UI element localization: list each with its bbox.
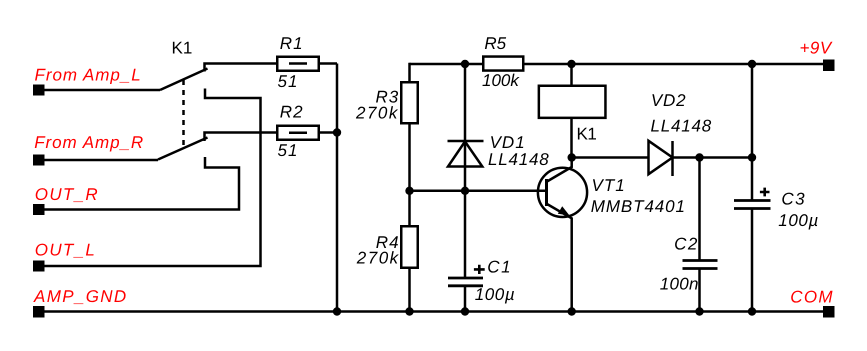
- wire: [44, 159, 158, 162]
- junction top rail / C3: [748, 60, 756, 68]
- svg-text:MMBT4401: MMBT4401: [591, 197, 686, 216]
- wire C3 to ground rail: [751, 209, 754, 312]
- wire vertical bus to ground rail: [336, 64, 339, 312]
- wire R1 to vertical bus: [319, 62, 337, 65]
- switch blade K1.1: [160, 69, 208, 91]
- wire rail to relay coil: [570, 64, 573, 85]
- svg-text:C1: C1: [487, 258, 512, 277]
- svg-text:100n: 100n: [660, 274, 699, 293]
- wire C2 to ground rail: [698, 269, 701, 312]
- wire rail to R3: [408, 63, 411, 83]
- svg-text:LL4148: LL4148: [488, 150, 550, 169]
- junction rail / R4: [405, 307, 413, 315]
- terminal From Amp_L: [33, 85, 45, 96]
- junction top rail / VD1: [461, 60, 469, 68]
- transistor VT1 emitter arrow: [558, 206, 570, 215]
- wire C2 branch down: [698, 158, 701, 261]
- transistor VT1 base bar: [545, 179, 548, 206]
- diode VD1 triangle: [448, 142, 482, 167]
- transistor VT1 emitter: [547, 204, 572, 312]
- transistor VT1 circle: [538, 168, 587, 217]
- junction VD2 / C2: [695, 153, 703, 161]
- transistor VT1 collector: [547, 158, 572, 182]
- wire NO contact 1 to R1: [205, 64, 278, 72]
- svg-text:OUT_L: OUT_L: [35, 241, 96, 260]
- junction rail / emitter: [568, 307, 576, 315]
- wire NO contact 2 to R2: [205, 133, 278, 142]
- wire NC contact 2 to OUT_R: [44, 157, 239, 210]
- svg-text:From Amp_R: From Amp_R: [34, 133, 144, 152]
- wire R4 to ground rail: [408, 268, 411, 312]
- svg-text:R1: R1: [280, 34, 304, 53]
- switch blade K1.2: [158, 138, 208, 160]
- capacitor C3 plus sign: [760, 188, 770, 197]
- wire +9V rail: [410, 63, 824, 66]
- capacitor C1 plates: [448, 277, 483, 280]
- svg-text:VT1: VT1: [592, 176, 626, 195]
- wire ground rail: [44, 310, 823, 313]
- svg-text:R2: R2: [280, 103, 304, 122]
- svg-text:AMP_GND: AMP_GND: [33, 287, 128, 306]
- junction base node VD1: [461, 187, 469, 195]
- svg-text:51: 51: [278, 141, 299, 160]
- terminal AMP_GND: [33, 306, 45, 318]
- svg-text:270k: 270k: [356, 249, 400, 268]
- svg-text:270k: 270k: [355, 104, 399, 123]
- junction collector / relay: [568, 153, 576, 161]
- wire collector to VD2: [572, 156, 649, 159]
- capacitor C2 plates: [683, 259, 718, 262]
- junction rail / C3: [748, 307, 756, 315]
- wire: [44, 89, 160, 92]
- capacitor C3 plates: [734, 199, 771, 202]
- resistor R3: [401, 82, 418, 123]
- wire C3 branch vertical: [751, 64, 754, 201]
- junction rail / bus: [333, 307, 341, 315]
- capacitor C1 plus sign: [474, 265, 485, 274]
- resistor R1: [277, 57, 319, 71]
- svg-text:VD2: VD2: [651, 91, 686, 110]
- wire VD2 to C3 branch: [673, 156, 753, 159]
- svg-text:LL4148: LL4148: [651, 116, 713, 135]
- terminal +9V: [823, 60, 835, 72]
- switch link dashed: [182, 80, 185, 148]
- junction rail / C2: [695, 307, 703, 315]
- wire R2 to vertical bus: [319, 131, 337, 134]
- svg-text:C2: C2: [674, 235, 699, 254]
- wire R3 to base node: [408, 123, 411, 226]
- terminal From Amp_R: [33, 155, 45, 166]
- svg-text:K1: K1: [577, 125, 597, 144]
- terminal OUT_R: [33, 204, 45, 215]
- svg-text:R5: R5: [484, 34, 506, 53]
- junction top rail / relay: [567, 60, 575, 68]
- svg-text:100k: 100k: [482, 71, 520, 90]
- svg-text:51: 51: [278, 72, 299, 91]
- wire relay coil to collector: [570, 119, 573, 158]
- svg-text:COM: COM: [790, 287, 834, 306]
- svg-text:K1: K1: [172, 39, 193, 58]
- junction base node R3 R4: [405, 187, 413, 195]
- svg-text:100µ: 100µ: [475, 285, 516, 304]
- diode VD1 cathode bar: [448, 140, 484, 143]
- wire NC contact 1 to OUT_L: [44, 89, 261, 267]
- terminal OUT_L: [33, 261, 45, 272]
- junction VD2 / C3: [748, 153, 756, 161]
- resistor R2: [277, 126, 319, 140]
- resistor R5: [483, 57, 523, 71]
- wire C1 to ground rail: [464, 286, 467, 312]
- wire base node horizontal: [410, 190, 546, 193]
- svg-text:OUT_R: OUT_R: [35, 185, 99, 204]
- relay coil K1: [539, 86, 606, 118]
- svg-text:From Amp_L: From Amp_L: [35, 66, 142, 85]
- junction R2 output: [333, 128, 341, 136]
- junction rail / C1: [461, 307, 469, 315]
- terminal COM: [823, 306, 835, 318]
- diode VD2 triangle: [649, 141, 673, 174]
- resistor R4: [401, 226, 418, 268]
- diode VD2 cathode bar: [671, 141, 674, 176]
- svg-text:100µ: 100µ: [778, 211, 819, 230]
- svg-text:+9V: +9V: [800, 39, 833, 58]
- wire VD1 branch vertical: [464, 64, 467, 278]
- svg-text:C3: C3: [781, 189, 806, 208]
